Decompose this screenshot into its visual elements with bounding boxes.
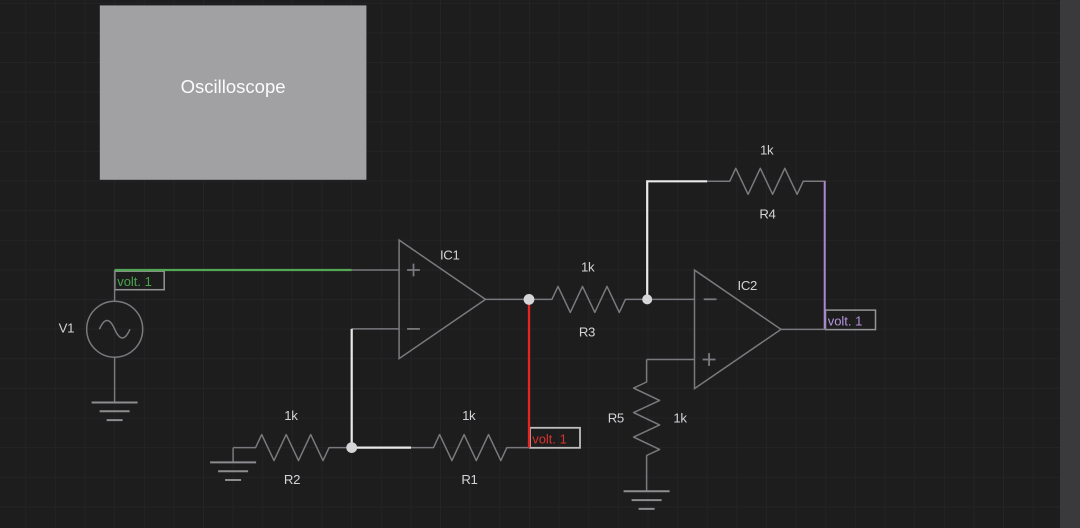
svg-text:volt. 1: volt. 1 — [828, 314, 863, 329]
svg-text:R5: R5 — [608, 410, 624, 425]
svg-text:V1: V1 — [59, 320, 74, 335]
svg-text:volt. 1: volt. 1 — [532, 432, 567, 447]
svg-text:1k: 1k — [673, 410, 687, 425]
svg-text:1k: 1k — [760, 142, 774, 157]
svg-text:R1: R1 — [461, 472, 477, 487]
svg-text:IC2: IC2 — [738, 278, 757, 293]
svg-text:R4: R4 — [759, 206, 775, 221]
svg-text:R2: R2 — [284, 472, 300, 487]
svg-text:1k: 1k — [581, 260, 595, 275]
svg-text:IC1: IC1 — [440, 248, 459, 263]
svg-text:R3: R3 — [579, 324, 595, 339]
svg-text:Oscilloscope: Oscilloscope — [181, 76, 286, 97]
svg-text:1k: 1k — [462, 408, 476, 423]
svg-text:1k: 1k — [284, 408, 298, 423]
svg-text:volt. 1: volt. 1 — [117, 274, 152, 289]
